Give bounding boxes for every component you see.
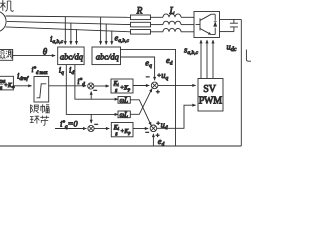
wire theta to abc/dq [13, 55, 56, 57]
wire i_q* reference to junction2 [55, 128, 86, 130]
svg-text:ωL: ωL [120, 112, 129, 119]
svg-text:+Kp: +Kp [120, 129, 130, 135]
summing junction J4 (u_d) [145, 121, 160, 140]
summing junction J2 (i_q error) [88, 122, 98, 132]
wire i_q feedback (down, right, splits to junction2 and wL2) [66, 65, 118, 115]
wire L to converter phase B [181, 24, 194, 26]
wire DC link down right edge [240, 19, 242, 146]
svg-text:ωL: ωL [120, 98, 129, 105]
wire current tap c [76, 29, 78, 44]
wire current tap b [70, 23, 72, 45]
label 环 [30, 116, 40, 123]
svg-text:+Kω: +Kω [4, 83, 15, 89]
svg-text:abc/dq: abc/dq [60, 51, 84, 61]
wire current tap a [64, 17, 66, 45]
wL block 1 (d-axis decoupling) [118, 97, 130, 104]
svg-text:idref: idref [17, 71, 30, 83]
wire voltage tap b [105, 24, 107, 45]
resistor R phase C [131, 30, 151, 35]
wire phase rail B [7, 21, 131, 24]
svg-text:−: − [94, 122, 98, 129]
abc/dq transform block U2 (voltages) [92, 47, 121, 65]
svg-text:−: − [146, 74, 150, 81]
summing junction J1 (i_d error) [88, 83, 98, 95]
wire R to L phase C [151, 31, 164, 33]
svg-text:−: − [145, 130, 149, 137]
svg-text:θ: θ [43, 47, 48, 57]
limiter (saturation) box [34, 77, 49, 103]
converter (PWM rectifier) box [194, 12, 220, 38]
wire u_q to SVPWM [158, 84, 196, 86]
wire wL1 output (cross-coupled to J4) [130, 100, 151, 126]
wire J2 to PI2 [94, 128, 109, 130]
svg-text:+: + [156, 89, 160, 96]
wire u_d to SVPWM [157, 105, 196, 128]
svg-text:sa,b,c: sa,b,c [184, 45, 199, 57]
speed PI controller box (clipped at left edge) [0, 76, 13, 90]
svg-text:ia,b,c: ia,b,c [50, 34, 64, 46]
wire gate signal a [200, 40, 202, 79]
wire wL2 output (cross-coupled to J3) [130, 89, 152, 115]
svg-text:ed: ed [166, 55, 173, 67]
inductor L phase C [163, 28, 181, 31]
summing junction J3 (u_q) [146, 72, 162, 96]
wire e_d feedforward up into J4 [152, 134, 154, 146]
wL block 2 (q-axis decoupling) [118, 111, 130, 118]
wire limiter to junction1 (i_d* reference) [49, 85, 86, 87]
wire gate signal b [206, 40, 208, 79]
svg-text:abc/dq: abc/dq [96, 51, 120, 61]
wire phase rail C [6, 27, 131, 32]
wire L to converter phase C [181, 31, 194, 33]
svg-text:iq: iq [59, 65, 64, 77]
svg-text:PWM: PWM [199, 96, 222, 107]
inductor L phase B [163, 21, 181, 24]
svg-text:id: id [69, 65, 74, 77]
PI controller block PI1 (d-axis current) [111, 79, 133, 93]
label 机 (motor Chinese char, top-left) [0, 0, 13, 11]
wire R to L phase A [151, 16, 164, 18]
label 限 [31, 105, 39, 114]
svg-text:uq: uq [161, 70, 168, 82]
svg-text:+Kp: +Kp [120, 85, 130, 91]
wire PI1 to junction3 [133, 85, 149, 87]
wire R to L phase B [151, 24, 164, 26]
inductor L phase A [163, 14, 181, 17]
label 节 [40, 116, 49, 126]
label 幅 [40, 104, 49, 113]
wire J1 to PI1 [94, 85, 109, 87]
abc/dq transform block U1 (currents) [58, 47, 84, 65]
svg-text:−: − [93, 88, 97, 95]
wire voltage tap c [111, 31, 113, 45]
wire L to converter phase A [181, 16, 194, 18]
wire bottom bus [0, 145, 241, 147]
wire DC- rail [220, 31, 234, 33]
wire stub at right edge [246, 50, 251, 62]
svg-text:ud: ud [161, 119, 168, 131]
SVPWM block [198, 79, 223, 112]
svg-text:eq: eq [145, 58, 152, 70]
position detection box 检测 (clipped at left edge) [0, 50, 13, 61]
svg-text:i*d: i*d [77, 76, 85, 88]
svg-text:SV: SV [203, 84, 217, 95]
PI controller block PI2 (q-axis current) [111, 123, 133, 137]
wire phase rail A [6, 16, 131, 17]
wire gate signal c [212, 40, 214, 79]
wire e_d from abc/dq down to bottom bus [121, 49, 176, 146]
svg-text:ed: ed [158, 136, 165, 148]
IGBT Q1 with antiparallel diode inside converter [196, 14, 217, 34]
wire PI to limiter [13, 85, 31, 87]
wire voltage tap a [100, 17, 102, 44]
resistor R phase B [131, 22, 151, 27]
svg-text:i*d max: i*d max [32, 66, 49, 76]
motor circle (three-phase machine, clipped at left edge) [0, 11, 6, 32]
svg-text:ea,b,c: ea,b,c [115, 33, 130, 45]
wire i_d feedback (down, right, splits to junction1 and wL1) [75, 65, 118, 100]
svg-text:udc: udc [227, 42, 237, 54]
wire DC+ rail [220, 18, 242, 20]
wire PI2 to junction4 [133, 128, 148, 130]
wire e_q from abc/dq to junction3 [121, 57, 155, 80]
resistor R phase A [131, 15, 151, 20]
capacitor C (DC link) [230, 19, 238, 31]
